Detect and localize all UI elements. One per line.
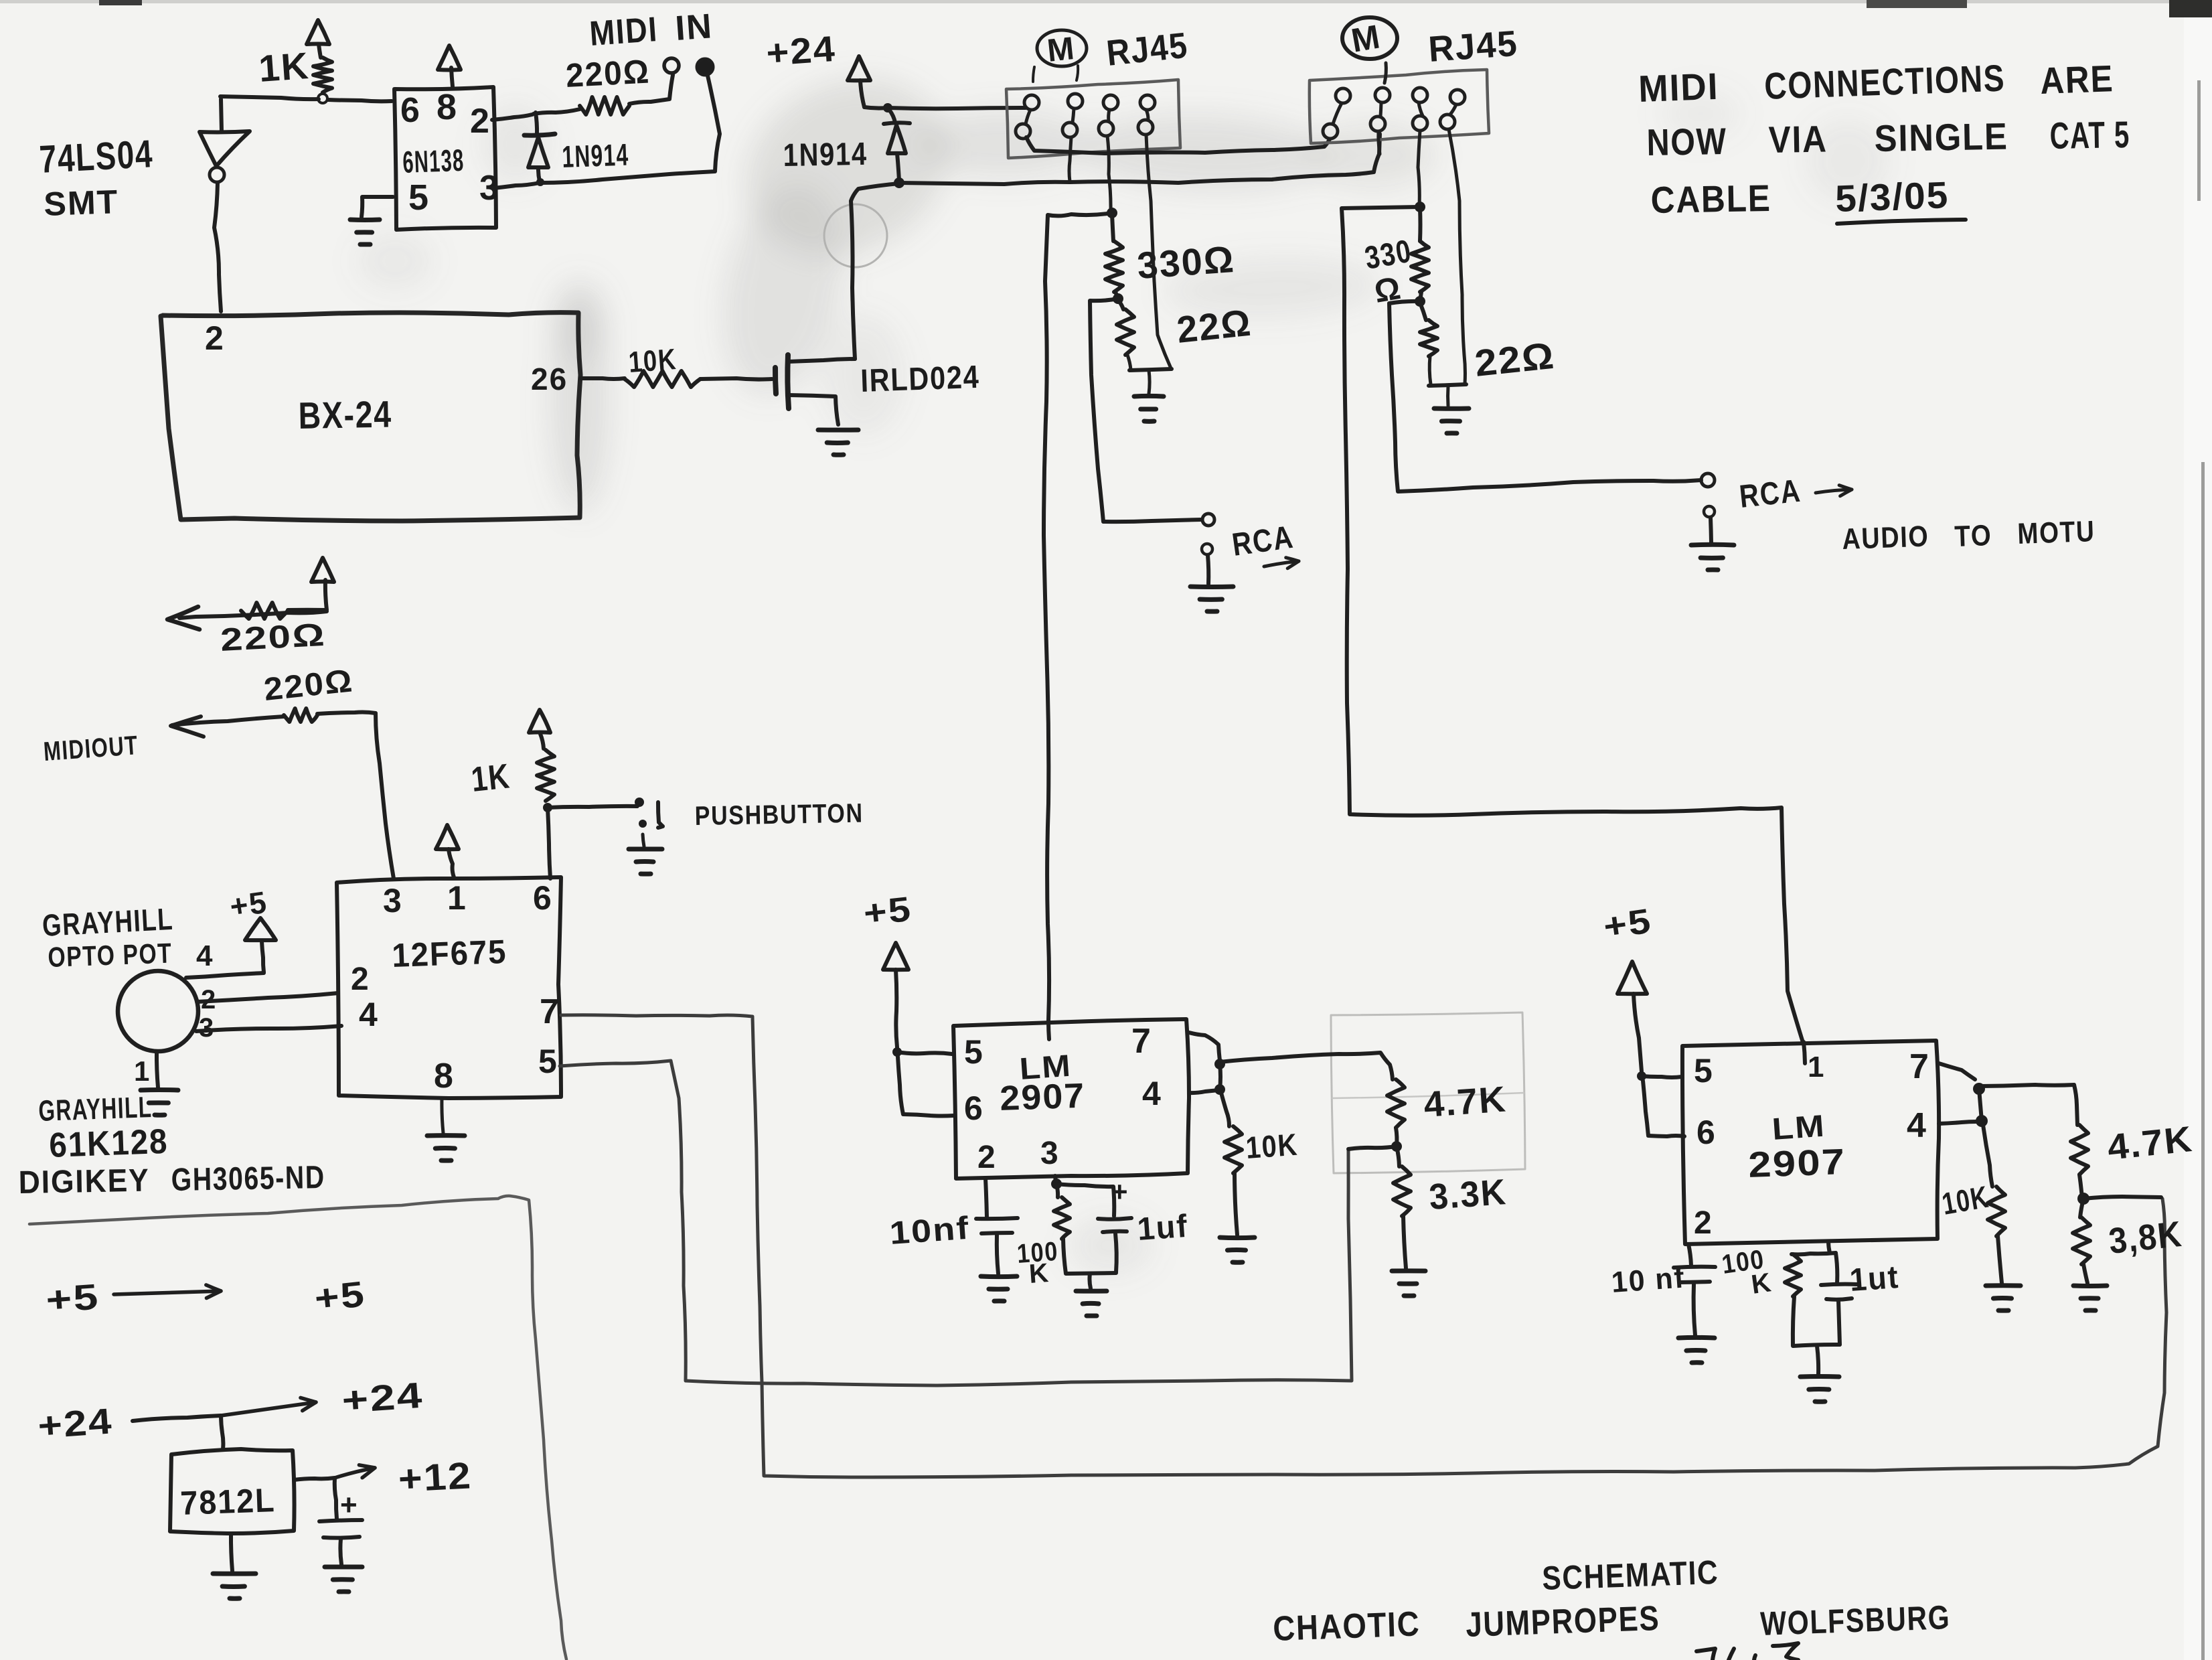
svg-text:22Ω: 22Ω (1473, 334, 1557, 384)
wire node to RCA2 tip (1389, 301, 1701, 492)
resistor R7 22 ohm (1420, 303, 1557, 384)
svg-text:VIA: VIA (1768, 117, 1828, 161)
svg-text:K: K (1749, 1268, 1774, 1300)
power +5 arrow (opto pot pin 4) (228, 885, 276, 972)
power arrow +V (6N138 pin 8) (438, 46, 461, 86)
connector RCA2 tip (1701, 473, 1715, 487)
wire +5 down to pin 6 (898, 1057, 953, 1116)
capacitor C5 (12V rail) (319, 1478, 362, 1564)
ground (RCA1 shield) (1190, 544, 1233, 611)
faint pencil rectangle (erased box) (1331, 1012, 1525, 1173)
svg-text:SCHEMATIC: SCHEMATIC (1541, 1554, 1719, 1597)
J1 pin pair 3 (1099, 95, 1118, 136)
svg-text:CONNECTIONS: CONNECTIONS (1763, 56, 2006, 107)
diode D2 1N914 (783, 110, 910, 181)
label (M) circled M for J1 (1033, 30, 1087, 82)
svg-text:2907: 2907 (999, 1077, 1086, 1118)
svg-text:5: 5 (1694, 1052, 1714, 1089)
label AUDIO TO MOTU (1842, 515, 2096, 556)
svg-text:4.7K: 4.7K (1423, 1079, 1508, 1125)
svg-text:1K: 1K (469, 757, 512, 800)
resistor R11 3.3K (1393, 1146, 1508, 1217)
svg-text:+5: +5 (862, 890, 914, 933)
power arrow +V (1K pull-up, 12F675 pin6) (529, 710, 550, 749)
wire 6N138 pin 3 to MIDI IN pin B (493, 76, 720, 188)
ground (R15) (2073, 1264, 2107, 1310)
note WOLFSBURG (1759, 1598, 1951, 1643)
svg-text:2: 2 (977, 1140, 997, 1175)
terminal MIDI IN pin A (664, 58, 679, 73)
svg-text:7: 7 (1131, 1022, 1152, 1061)
resistor R13 10K (2) (1940, 1125, 2005, 1236)
resistor R10 4.7K (1387, 1079, 1508, 1128)
svg-text:DIGIKEY: DIGIKEY (18, 1163, 150, 1201)
partial text at page bottom edge (1696, 1643, 1798, 1660)
connector RCA1 tip (1202, 514, 1214, 526)
capacitor C3 10nf (pin 2 of U7) (1610, 1244, 1715, 1335)
junction pin4 node (2) (1976, 1089, 1988, 1127)
svg-text:+24: +24 (37, 1401, 114, 1446)
svg-text:CHAOTIC: CHAOTIC (1272, 1604, 1421, 1649)
wire Q1 drain to +24 diode node (851, 183, 899, 359)
wire inverter-out to 1K node to 6N138 pin 6 (220, 96, 392, 101)
svg-text:RCA: RCA (1738, 473, 1803, 515)
junction 1K/pushbutton/pin6 (543, 803, 552, 812)
wire spare net (pencil, to page bottom) (29, 1196, 566, 1659)
wire node to RCA1 tip (1090, 299, 1201, 522)
wire 6N138 pin 2 to diode node (492, 115, 532, 120)
resistor R4 330 ohm (1105, 214, 1236, 299)
svg-text:+: + (340, 1489, 359, 1521)
resistor R18 220 ohm (MIDIOUT) (171, 663, 394, 879)
wire 22 ohm to ground bar (J2) (1429, 356, 1466, 386)
ground (pin3 RC of U7) (1800, 1346, 1839, 1402)
svg-text:1K: 1K (257, 44, 311, 90)
junction +5/pin5/pin6 (2) (1637, 1071, 1646, 1081)
svg-text:RJ45: RJ45 (1427, 23, 1520, 70)
wire pin 4 to node (1189, 1090, 1218, 1093)
connector J2 RJ45 (box) (1310, 70, 1489, 143)
ground (R9) (1220, 1173, 1255, 1262)
ground (C5) (325, 1567, 362, 1592)
wire RC bottom bar (1063, 1239, 1116, 1274)
junction diode D2 / MIDI bus (894, 177, 904, 188)
wire pin7 node to 4.7K (1220, 1053, 1393, 1079)
junction node 330/22 (J2) (1415, 296, 1425, 307)
net label +24 to +24 (37, 1375, 425, 1446)
resistor R17 220 ohm (spare MIDI line) (167, 558, 334, 658)
svg-text:+24: +24 (765, 29, 838, 74)
J2 pin pair 3 (1413, 88, 1427, 131)
ground (7812L) (213, 1533, 256, 1598)
junction divider node (2) (2077, 1175, 2089, 1205)
wire 1K junction to 12F675 pin 6 (548, 808, 550, 879)
wire divider node to 12F675 pin5 route (1348, 1146, 1397, 1149)
ground (J2 terminator) (1434, 386, 1469, 433)
svg-text:PUSHBUTTON: PUSHBUTTON (694, 799, 864, 831)
capacitor C1 10nf (pin 2) (888, 1179, 1018, 1274)
svg-text:ARE: ARE (2039, 57, 2114, 102)
svg-text:1: 1 (447, 879, 467, 917)
wire 10K to Q1 gate (700, 378, 772, 380)
svg-text:WOLFSBURG: WOLFSBURG (1759, 1598, 1951, 1643)
svg-text:1N914: 1N914 (562, 137, 630, 174)
svg-text:12F675: 12F675 (391, 933, 507, 974)
junction +24 to 7812L (221, 1416, 223, 1449)
label MIDI IN (588, 7, 714, 54)
note CHAOTIC JUMPROPES (1272, 1599, 1660, 1649)
wire J1 pair2 stub down to MIDI bus (1069, 137, 1071, 181)
svg-text:7: 7 (540, 992, 560, 1031)
wire J2 pair3 down to 330 node (1418, 131, 1420, 206)
resistor R2 220 ohm (MIDI IN) (534, 52, 673, 115)
svg-text:5: 5 (408, 177, 430, 218)
svg-text:GRAYHILL: GRAYHILL (38, 1091, 153, 1128)
junction node J2-330 (1415, 202, 1425, 212)
wire pot pin4 to +5 (186, 939, 264, 978)
connector J1 RJ45 (box) (1006, 80, 1180, 158)
opto pot P1 (Grayhill) (118, 971, 198, 1051)
svg-text:4: 4 (1907, 1106, 1927, 1145)
svg-text:5/3/05: 5/3/05 (1834, 173, 1950, 220)
wire node to long vertical (to LM2907#1 pin1) (1044, 213, 1112, 1021)
power +24 (label and arrow) (765, 29, 870, 107)
wire 12F675 pin 5 to LM2907#1 divider (long route) (560, 1061, 1352, 1385)
wire RC bottom bar (2) (1793, 1296, 1840, 1346)
wire J2 pair4 down to ground bar (1449, 129, 1465, 384)
svg-text:6N138: 6N138 (402, 143, 465, 179)
svg-text:GH3065-ND: GH3065-ND (171, 1160, 325, 1198)
inverter U1 74LS04 (38, 99, 250, 223)
capacitor C4 1uf (2) (1821, 1253, 1901, 1345)
svg-text:+24: +24 (341, 1375, 425, 1421)
resistor R9 10K (1221, 1093, 1299, 1173)
svg-text:2907: 2907 (1747, 1142, 1846, 1185)
svg-text:+5: +5 (1601, 901, 1654, 946)
label MIDIOUT (43, 731, 140, 767)
junction pin4 node (1214, 1064, 1225, 1095)
label GRAYHILL OPTO POT (42, 901, 174, 973)
wire J1 pair1 to J2 pair1 (+24 pass-through) (1026, 137, 1330, 153)
svg-text:8: 8 (437, 87, 458, 127)
svg-text:1N914: 1N914 (783, 137, 868, 173)
junction node 330/22 (1113, 293, 1123, 304)
wire pin7 node to 4.7K (2) (1980, 1085, 2077, 1125)
resistor R1 1K (257, 44, 332, 92)
resistor R5 22 ohm (1117, 300, 1254, 355)
resistor R15 3.3K (2) (2073, 1199, 2185, 1264)
svg-text:IN: IN (674, 7, 714, 48)
J1 pin pair 1 (1016, 95, 1039, 139)
ground (pin3 RC) (1076, 1274, 1107, 1316)
resistor R8 1K (469, 750, 554, 801)
svg-text:AUDIO: AUDIO (1842, 520, 1930, 556)
power arrow +V (12F675 pin 1) (436, 825, 459, 877)
svg-text:8: 8 (434, 1057, 455, 1096)
svg-text:10nf: 10nf (888, 1211, 971, 1252)
pin 3 RC network (U7) (1720, 1241, 1836, 1300)
svg-text:6: 6 (964, 1089, 984, 1127)
junction +5/pin5/pin6 (892, 1047, 902, 1057)
wire pin 7 to node (1189, 1033, 1220, 1061)
svg-text:NOW: NOW (1646, 120, 1727, 163)
label GRAYHILL 61K128 DIGIKEY (18, 1091, 325, 1201)
ground (pot pin 1) (134, 1051, 178, 1115)
svg-text:26: 26 (531, 362, 568, 396)
svg-text:1: 1 (134, 1055, 151, 1087)
optocoupler U2 6N138 (394, 87, 500, 230)
capacitor C2 1uf (1056, 1176, 1190, 1272)
wire node to LM2907#2 pin 1 (long route) (1342, 207, 1804, 1045)
svg-text:CABLE: CABLE (1650, 177, 1771, 221)
svg-text:1ut: 1ut (1848, 1260, 1901, 1298)
wire 7812L output +12 (294, 1454, 473, 1500)
junction node (1K / inverter / 6N138 pin6) (318, 94, 327, 103)
ground (RCA2 shield) (1691, 506, 1734, 570)
svg-text:7812L: 7812L (179, 1481, 276, 1522)
svg-text:5: 5 (964, 1033, 984, 1071)
svg-text:330Ω: 330Ω (1135, 238, 1236, 287)
svg-text:BX-24: BX-24 (298, 393, 392, 437)
svg-text:M: M (1046, 31, 1077, 69)
wire BX-24 pin 26 to 10K (580, 378, 625, 379)
resistor R14 4.7K (2) (2071, 1119, 2195, 1175)
svg-text:10K: 10K (627, 343, 678, 379)
resistor R16 100K (2) (1785, 1254, 1801, 1296)
wire pin 4 to node (2) (1939, 1122, 1980, 1124)
wire divider node to pin7-route (2) (2083, 1197, 2161, 1199)
wire +5 to pin 5 (2) (1642, 1076, 1682, 1077)
svg-text:6: 6 (533, 879, 553, 917)
svg-text:MOTU: MOTU (2017, 515, 2096, 550)
ground (C1) (981, 1276, 1017, 1301)
svg-text:CAT 5: CAT 5 (2049, 113, 2130, 157)
svg-text:3: 3 (199, 1013, 215, 1043)
wire MIDI bus (D2 node to RJ45 J2 pin2) (899, 134, 1380, 184)
svg-text:61K128: 61K128 (48, 1122, 169, 1165)
IC U6 LM2907 (first) (953, 1019, 1189, 1179)
svg-text:MIDI: MIDI (1638, 65, 1719, 110)
ground (12F675 pin 8) (427, 1098, 465, 1160)
svg-text:1uf: 1uf (1136, 1209, 1190, 1248)
svg-text:MIDI: MIDI (588, 10, 659, 54)
wire junction to pushbutton (548, 806, 637, 808)
ground (R11) (1392, 1216, 1425, 1296)
svg-text:4: 4 (196, 939, 214, 972)
svg-text:OPTO POT: OPTO POT (48, 937, 173, 973)
power arrow +V (above 1K pull-up) (307, 20, 329, 58)
svg-text:22Ω: 22Ω (1175, 301, 1254, 351)
svg-text:GRAYHILL: GRAYHILL (42, 901, 174, 943)
svg-text:+5: +5 (228, 885, 270, 924)
faint pencil circle (erased mark) (824, 204, 887, 267)
label RCA2 with arrow (1738, 473, 1852, 515)
junction pin7 node (2) (1973, 1083, 1985, 1095)
svg-text:+5: +5 (313, 1274, 368, 1319)
pushbutton S1 (635, 798, 864, 831)
wire +24 to RJ45 J1 pin1 (864, 107, 1026, 108)
junction divider node (4.7K/3.3K) (1391, 1128, 1402, 1152)
power +5 arrow (LM2907#2) (1601, 901, 1654, 1071)
svg-text:5: 5 (538, 1043, 558, 1080)
wire 12F675 pin 7 to LM2907#2 divider (long route) (561, 1015, 2166, 1477)
svg-text:3: 3 (1040, 1136, 1060, 1171)
regulator U5 7812L (170, 1449, 295, 1533)
ground (6N138 pin 5) (350, 197, 393, 244)
junction +24 node (883, 103, 892, 112)
svg-text:RJ45: RJ45 (1105, 25, 1190, 74)
svg-text:TO: TO (1954, 519, 1993, 553)
label RJ45 for J1 (1105, 25, 1190, 74)
svg-text:SINGLE: SINGLE (1874, 115, 2008, 159)
svg-text:IRLD024: IRLD024 (860, 360, 981, 399)
wire J1 pair4 down to ground bar (1146, 135, 1171, 368)
svg-text:LM: LM (1771, 1108, 1826, 1146)
svg-text:SMT: SMT (43, 183, 119, 223)
IC U7 LM2907 (second) (1682, 1041, 1939, 1244)
wire 22 ohm to ground bar (1127, 355, 1172, 370)
J2 pin pair 2 (1370, 88, 1390, 131)
label (M) circled M for J2 (1342, 17, 1397, 83)
wire +5 down to pin 6 (2) (1643, 1081, 1684, 1136)
svg-text:74LS04: 74LS04 (38, 132, 154, 181)
net label +5 to +5 (45, 1274, 368, 1321)
resistor R12 100K (1016, 1184, 1070, 1289)
microcontroller U3 BX-24 (161, 313, 580, 521)
ground (Q1 source) (818, 430, 858, 455)
wire pot pin3 to 12F675 pin4 (196, 1013, 341, 1043)
diode D1 1N914 (524, 112, 629, 186)
svg-text:220Ω: 220Ω (220, 617, 327, 658)
svg-text:JUMPROPES: JUMPROPES (1465, 1599, 1660, 1645)
svg-text:2: 2 (470, 102, 491, 141)
J1 pin pair 2 (1062, 94, 1083, 137)
svg-text:6: 6 (400, 91, 421, 130)
microcontroller U4 12F675 (337, 877, 561, 1098)
junction node J1-330 (1107, 208, 1117, 218)
label RJ45 for J2 (1427, 23, 1520, 70)
svg-text:220Ω: 220Ω (565, 52, 651, 94)
svg-text:3: 3 (383, 882, 403, 919)
svg-text:6: 6 (1696, 1114, 1717, 1151)
ground (C3) (1678, 1337, 1715, 1363)
svg-text:1: 1 (1808, 1051, 1825, 1083)
resistor R6 330 ohm (1362, 208, 1429, 310)
terminal MIDI IN pin B (696, 58, 714, 76)
svg-text:10K: 10K (1245, 1127, 1299, 1165)
svg-text:2: 2 (351, 962, 370, 997)
J1 pin pair 4 (1138, 95, 1155, 135)
wire J2 pair2 stub to MIDI bus (1378, 131, 1380, 154)
ground (pushbutton) (629, 834, 662, 874)
svg-text:2: 2 (1694, 1205, 1713, 1241)
wire inverter output to BX-24 pin 2 (214, 183, 221, 311)
svg-text:3,8K: 3,8K (2107, 1214, 2185, 1262)
svg-text:+12: +12 (397, 1454, 473, 1500)
wire pot pin2 to 12F675 pin2 (197, 985, 338, 1014)
svg-text:7: 7 (1909, 1047, 1930, 1086)
wire pin 7 to node (2) (1939, 1063, 1975, 1079)
svg-text:K: K (1028, 1258, 1051, 1289)
note: MIDI connections via CAT5 (1638, 56, 2130, 224)
wire +5 to pin 5 (897, 1052, 952, 1054)
J2 pin pair 4 (1440, 90, 1465, 129)
J2 pin pair 1 (1323, 88, 1350, 139)
ground (J1 terminator) (1134, 370, 1164, 421)
svg-text:4: 4 (359, 996, 379, 1033)
transistor Q1 IRLD024 (775, 355, 980, 425)
junction pin7 node (1214, 1059, 1225, 1069)
power +5 arrow (LM2907#1) (862, 890, 914, 1047)
junction pin 3 node (1051, 1176, 1062, 1189)
wire LM2907#1 pin 1 from J1 node (1048, 1021, 1048, 1022)
note SCHEMATIC (1541, 1554, 1719, 1597)
wire J1 pair3 down to 330 node (1107, 136, 1111, 212)
label RCA1 with arrow (1230, 520, 1299, 569)
svg-text:4: 4 (1142, 1075, 1162, 1112)
resistor R3 10K (625, 343, 700, 387)
svg-text:2: 2 (205, 319, 225, 357)
svg-text:+5: +5 (45, 1277, 101, 1321)
svg-text:3.3K: 3.3K (1428, 1172, 1508, 1217)
ground (R13) (1986, 1236, 2021, 1310)
